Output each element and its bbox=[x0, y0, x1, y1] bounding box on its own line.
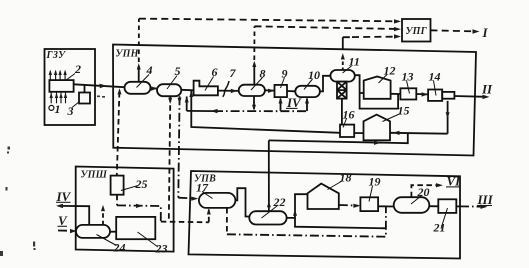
well lines below 2 bbox=[51, 92, 65, 104]
svg-text:20: 20 bbox=[417, 185, 430, 199]
drain A riser into 17 bbox=[208, 210, 210, 223]
label leader 2 bbox=[66, 74, 76, 81]
gas riser from 11 bbox=[342, 37, 344, 49]
svg-text:18: 18 bbox=[340, 171, 352, 185]
sludge tank 23 bbox=[116, 217, 155, 239]
pump 19 bbox=[360, 197, 378, 211]
choke 7 bbox=[223, 81, 229, 97]
svg-text:14: 14 bbox=[429, 70, 441, 84]
svg-text:5: 5 bbox=[175, 64, 181, 78]
svg-text:22: 22 bbox=[273, 195, 286, 209]
step wire 17 to 22 bbox=[235, 188, 249, 216]
drain stub from 8 down bbox=[253, 96, 255, 109]
svg-text:II: II bbox=[481, 82, 493, 97]
svg-text:УПН: УПН bbox=[116, 49, 140, 60]
svg-text:24: 24 bbox=[113, 241, 126, 255]
label leader 8 bbox=[251, 78, 263, 91]
svg-text:15: 15 bbox=[398, 104, 410, 118]
label leader 15 bbox=[383, 114, 401, 122]
filter tank 18 bbox=[308, 184, 339, 209]
settling tank 25 bbox=[111, 176, 124, 195]
wire 22 to 18 bbox=[287, 194, 308, 218]
heater 6 bbox=[194, 81, 218, 96]
wire 16 to 15 bbox=[354, 132, 363, 134]
wire riser to 3 bbox=[84, 85, 86, 93]
svg-text:УПШ: УПШ bbox=[81, 170, 108, 181]
underline VI bbox=[446, 186, 460, 188]
svg-text:9: 9 bbox=[282, 67, 288, 81]
column under 11 bbox=[337, 82, 347, 99]
svg-text:1: 1 bbox=[55, 102, 61, 116]
stream V input dash-dot bbox=[58, 230, 76, 232]
line 18 to pump 19 dash-dot bbox=[339, 204, 358, 207]
drain A horizontal into 17 bbox=[161, 221, 209, 224]
pump 21 bbox=[438, 199, 456, 213]
metering manifold 2 bbox=[49, 80, 73, 92]
svg-text:21: 21 bbox=[433, 221, 446, 235]
svg-text:13: 13 bbox=[402, 70, 414, 84]
riser 24 to IV dashed bbox=[102, 208, 104, 225]
slop tank 15 bbox=[364, 115, 391, 141]
underline V left bbox=[58, 225, 68, 227]
label leader 22 bbox=[262, 206, 278, 218]
block UPSh box bbox=[76, 167, 174, 252]
svg-text:3: 3 bbox=[67, 104, 74, 118]
wire 6 to 8 bbox=[218, 90, 239, 92]
dehydrator 10 bbox=[295, 86, 320, 97]
wash water line IV dash-dot bbox=[187, 110, 214, 112]
svg-text:ГЗУ: ГЗУ bbox=[46, 50, 67, 61]
mixer 9 bbox=[275, 85, 288, 97]
drain B from 5 to 17 dash-dot bbox=[178, 96, 179, 198]
svg-text:8: 8 bbox=[260, 67, 266, 81]
underline pipe 18 bbox=[295, 218, 386, 228]
wire 12 to pump 13 bbox=[391, 93, 401, 95]
underline IV left bbox=[56, 201, 71, 203]
svg-text:I: I bbox=[482, 25, 489, 40]
metering unit 14 bbox=[428, 90, 442, 101]
wire 11 to tank 12 bbox=[355, 75, 398, 108]
recovered oil line from 22 bbox=[269, 133, 408, 143]
stream IV export line bbox=[59, 206, 90, 226]
wire 13 to 14 bbox=[416, 93, 428, 95]
label leader 18 bbox=[328, 181, 343, 190]
label leader 5 bbox=[167, 76, 177, 90]
wire 20 to pump 21 bbox=[429, 205, 438, 207]
vent from 20 line VI bbox=[411, 185, 439, 197]
dashed feed line to 25 bbox=[117, 92, 120, 176]
return line to 15 bbox=[390, 132, 447, 135]
riser IV into 5 bbox=[186, 97, 188, 111]
line 25 to 17 dash-dot bbox=[117, 205, 161, 221]
wire 4 to 5 bbox=[151, 87, 158, 90]
separator 4 bbox=[125, 82, 151, 94]
svg-text:16: 16 bbox=[343, 108, 355, 122]
label leader 12 bbox=[379, 75, 388, 84]
svg-text:УПГ: УПГ bbox=[406, 26, 428, 37]
label leader 21 bbox=[441, 208, 448, 229]
label leader 4 bbox=[137, 75, 150, 88]
label leader 6 bbox=[205, 77, 214, 91]
svg-text:17: 17 bbox=[196, 181, 209, 195]
svg-text:11: 11 bbox=[349, 55, 360, 69]
label leader 20 bbox=[411, 196, 421, 204]
svg-text:VI: VI bbox=[447, 173, 462, 188]
svg-text:6: 6 bbox=[212, 65, 218, 79]
riser from 22 up bbox=[268, 140, 270, 211]
gas output line I bbox=[431, 30, 477, 31]
svg-text:IV: IV bbox=[286, 95, 302, 110]
riser IV to mixer 9 bbox=[280, 99, 282, 111]
column drain to pump 16 bbox=[341, 99, 343, 125]
water output line III bbox=[456, 205, 460, 207]
gas riser from 8 bbox=[253, 64, 255, 85]
wire 5 to heater 6 bbox=[181, 89, 193, 92]
underline IV near 9 bbox=[286, 107, 298, 109]
well inlet arrows above 2 bbox=[50, 71, 65, 80]
svg-text:25: 25 bbox=[135, 177, 148, 191]
svg-text:7: 7 bbox=[230, 66, 237, 80]
drop from 17 dashed bbox=[226, 208, 228, 234]
settler 17 bbox=[199, 193, 236, 208]
label leader 9 bbox=[281, 78, 285, 89]
wire GZU output to separator 4 bbox=[74, 84, 125, 87]
label leader 14 bbox=[434, 81, 437, 96]
label leader 16 bbox=[343, 119, 347, 128]
label leader 13 bbox=[407, 81, 410, 94]
bottom drain dash-dot to 19-20 bbox=[227, 207, 386, 237]
oil trap 22 bbox=[249, 211, 286, 224]
settler 8 bbox=[239, 85, 265, 96]
wire 19 to 20 bbox=[378, 205, 394, 207]
block UPV box bbox=[189, 171, 461, 259]
svg-text:4: 4 bbox=[146, 63, 153, 77]
oil output line II bbox=[454, 95, 486, 98]
buffer tank 20 bbox=[394, 197, 430, 213]
gas riser from 4 bbox=[138, 66, 140, 82]
wire 24 to 23 bbox=[110, 231, 116, 233]
svg-text:10: 10 bbox=[308, 68, 320, 82]
svg-text:23: 23 bbox=[155, 242, 168, 256]
tank 12 bbox=[364, 77, 391, 99]
label leader 19 bbox=[369, 186, 373, 202]
drain A from 5 to UPV bbox=[169, 96, 171, 221]
underline III bbox=[477, 205, 492, 207]
label leader 24 bbox=[97, 235, 117, 246]
gas line 1 dashed to UPG bbox=[139, 19, 399, 22]
hot separator 11 bbox=[330, 70, 354, 82]
label leader 11 bbox=[343, 66, 352, 73]
pump 13 bbox=[400, 88, 416, 99]
label leader 23 bbox=[138, 232, 159, 247]
wire 8 to mixer 9 bbox=[265, 89, 275, 91]
line 25 out dashed bbox=[116, 195, 118, 206]
gas line 2 dashed to UPG bbox=[255, 26, 399, 29]
wire 10 to 11 step bbox=[320, 76, 331, 92]
device 3 bbox=[79, 93, 90, 104]
block GZU box bbox=[45, 49, 96, 125]
pump 16 bbox=[340, 125, 354, 137]
separator 5 bbox=[157, 84, 181, 96]
svg-text:2: 2 bbox=[74, 62, 81, 76]
riser IV to 10 bbox=[306, 99, 308, 112]
label leader 10 bbox=[304, 79, 313, 90]
drop from 14 to tank 15 bbox=[447, 101, 449, 134]
label leader 25 bbox=[121, 186, 138, 191]
label leader 17 bbox=[202, 192, 213, 199]
svg-text:12: 12 bbox=[384, 64, 396, 78]
connector into 12 left wall bbox=[360, 92, 364, 94]
svg-text:19: 19 bbox=[369, 175, 381, 189]
gas line 3 dashed to UPG bbox=[343, 36, 399, 39]
block UPN box bbox=[113, 45, 476, 156]
block UPG box bbox=[402, 19, 431, 42]
separator 24 bbox=[76, 225, 110, 238]
drain B horizontal arrow into 17 bbox=[178, 197, 195, 200]
svg-text:III: III bbox=[477, 192, 494, 207]
well 1 circle bbox=[49, 105, 54, 110]
wire 9 to 10 bbox=[287, 90, 295, 92]
label leader 3 bbox=[72, 102, 80, 108]
recycle line 16 to main bbox=[191, 90, 340, 133]
